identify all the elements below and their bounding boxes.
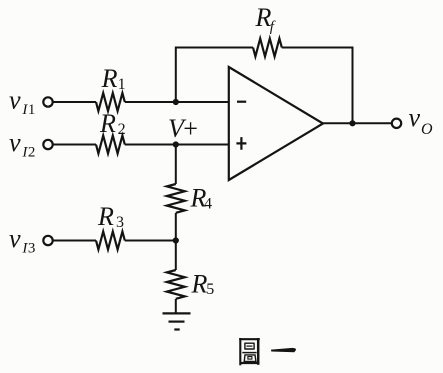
resistor R1 <box>96 93 125 111</box>
caption 圖 (figure) <box>239 338 260 365</box>
resistor R4 <box>167 184 185 213</box>
label vO <box>409 103 434 138</box>
wire R1 to op-amp minus input <box>125 101 229 103</box>
svg-text:v: v <box>9 85 21 114</box>
label vI2 <box>9 128 35 161</box>
svg-text:I3: I3 <box>21 241 35 257</box>
label V+ <box>168 114 198 143</box>
caption 一 (one) <box>271 348 296 352</box>
label vI3 <box>9 224 35 257</box>
terminal vI2 <box>43 140 52 149</box>
svg-text:O: O <box>421 121 433 138</box>
svg-text:1: 1 <box>118 76 126 93</box>
node V+ junction <box>173 141 179 147</box>
label R2 <box>99 109 126 138</box>
svg-text:R: R <box>97 202 114 231</box>
svg-text:f: f <box>270 19 276 35</box>
resistor Rf <box>253 39 282 57</box>
label vI1 <box>9 85 35 118</box>
label R3 <box>97 202 124 231</box>
label R1 <box>101 64 126 93</box>
wire vI3 to R3 <box>53 240 96 242</box>
wire feedback left vertical <box>176 48 253 103</box>
resistor R5 <box>167 270 185 299</box>
terminal vI1 <box>43 97 52 106</box>
wire R2 to op-amp plus input <box>125 144 229 146</box>
svg-text:2: 2 <box>118 121 126 138</box>
svg-text:R: R <box>101 64 118 93</box>
wire V+ down to R4 <box>175 145 177 185</box>
terminal vI3 <box>43 236 52 245</box>
resistor R3 <box>96 232 125 250</box>
wire R4 to node <box>175 213 177 270</box>
svg-text:v: v <box>9 128 21 157</box>
svg-text:I2: I2 <box>21 145 35 161</box>
svg-text:5: 5 <box>206 281 214 298</box>
svg-text:4: 4 <box>204 195 212 212</box>
terminal vO <box>392 119 401 128</box>
wire vI2 to R2 <box>53 144 96 146</box>
wire R3 to node <box>125 240 176 242</box>
svg-text:3: 3 <box>116 214 124 231</box>
label R4 <box>190 184 213 213</box>
wire op-amp output <box>323 122 392 124</box>
svg-text:v: v <box>409 103 421 132</box>
resistor R2 <box>96 136 125 154</box>
label Rf <box>255 3 276 35</box>
svg-text:R: R <box>99 109 116 138</box>
ground <box>163 313 191 329</box>
node output junction <box>349 120 355 126</box>
svg-text:I1: I1 <box>21 102 35 118</box>
svg-text:R: R <box>191 270 208 299</box>
wire vI1 to R1 <box>53 101 96 103</box>
op-amp U1 <box>229 67 323 180</box>
op-amp minus pin mark <box>237 101 246 103</box>
svg-text:v: v <box>9 224 21 253</box>
svg-text:+: + <box>183 114 198 143</box>
label R5 <box>191 270 215 299</box>
node junction on minus line <box>173 99 179 105</box>
wire feedback right to output node <box>282 48 353 124</box>
node junction on vI3 line <box>173 237 179 243</box>
wire R5 to ground <box>175 299 177 313</box>
op-amp plus pin mark <box>236 137 246 150</box>
